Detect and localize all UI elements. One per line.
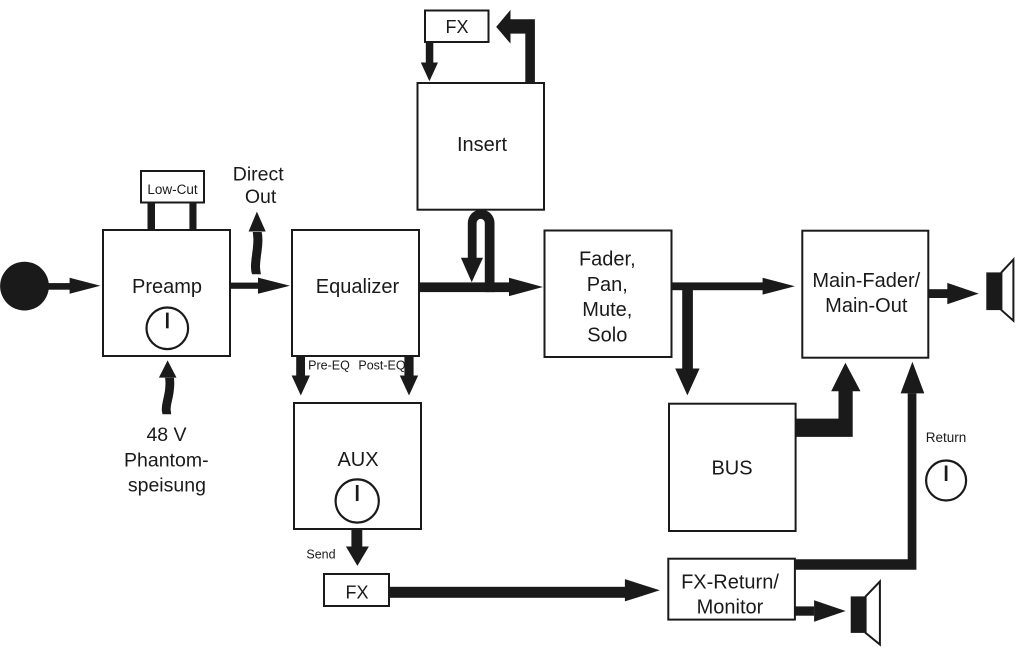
svg-text:Solo: Solo (587, 324, 627, 346)
svg-text:AUX: AUX (337, 449, 378, 471)
Pre-EQ tap arrow (292, 356, 310, 396)
Preamp gain knob (147, 308, 189, 350)
wire Fader to Main-Fader with arrowhead (672, 278, 795, 295)
Send label (306, 548, 335, 562)
svg-text:speisung: speisung (128, 475, 206, 497)
svg-text:Main-Out: Main-Out (825, 295, 908, 317)
Return label (926, 430, 967, 445)
Insert box (418, 83, 545, 210)
svg-text:Low-Cut: Low-Cut (147, 182, 198, 197)
svg-text:Pan,: Pan, (587, 274, 628, 296)
wire Preamp to Equalizer with arrowhead (230, 278, 290, 294)
48 V Phantomspeisung label (124, 424, 209, 497)
wire FX-Return to monitor speaker with arrowhead (795, 600, 846, 622)
svg-text:Fader,: Fader, (579, 249, 636, 271)
Pre-EQ label (308, 359, 350, 373)
main speaker icon (986, 260, 1013, 321)
svg-text:Pre-EQ: Pre-EQ (308, 359, 350, 373)
48V phantom power squiggle arrow (159, 360, 177, 414)
svg-text:FX: FX (445, 17, 468, 37)
AUX send arrow down to FX (346, 529, 369, 566)
wire Equalizer to Fader with arrowhead (419, 278, 543, 296)
Direct Out label (233, 164, 285, 209)
wire FX to FX-Return with arrowhead (389, 579, 660, 601)
svg-text:Mute,: Mute, (582, 299, 632, 321)
Post-EQ tap arrow (400, 356, 418, 396)
wire FX down into Insert with arrowhead (421, 42, 438, 81)
svg-text:Main-Fader/: Main-Fader/ (812, 270, 920, 292)
Direct Out squiggle arrow (249, 212, 266, 275)
svg-text:FX-Return/: FX-Return/ (681, 572, 779, 594)
svg-text:Send: Send (306, 548, 335, 562)
svg-text:Post-EQ: Post-EQ (358, 359, 406, 373)
Low-Cut box (141, 171, 204, 203)
svg-text:Return: Return (926, 430, 967, 445)
tap down from main wire to BUS with arrowhead (675, 286, 699, 395)
svg-text:Preamp: Preamp (132, 276, 202, 298)
Main-Fader/Main-Out box (802, 231, 928, 358)
svg-text:Insert: Insert (457, 134, 507, 156)
Fader/Pan/Mute/Solo box (545, 231, 672, 358)
Post-EQ label (358, 359, 406, 373)
AUX box (294, 403, 421, 529)
AUX level knob (336, 479, 379, 522)
svg-text:48 V: 48 V (146, 424, 186, 446)
BUS box (669, 404, 796, 531)
wire mic to Preamp with arrowhead (47, 278, 100, 294)
Preamp box (103, 230, 230, 356)
FX box (aux effect) (324, 574, 389, 606)
Equalizer box (292, 230, 419, 356)
return wire FX-Return up to Main-Fader with arrowhead (795, 362, 924, 570)
monitor speaker icon (851, 582, 880, 645)
svg-text:Equalizer: Equalizer (316, 276, 400, 298)
wire Main-Out to speaker with arrowhead (929, 283, 979, 304)
mic input source (0, 262, 49, 311)
svg-text:Monitor: Monitor (697, 597, 764, 619)
elbow arrow Insert up to FX (496, 10, 535, 83)
insert send/return hairpin loop (461, 210, 495, 292)
FX-Return/Monitor box (668, 559, 795, 620)
Return level knob (926, 461, 966, 501)
svg-text:Direct: Direct (233, 164, 285, 186)
svg-text:Phantom-: Phantom- (124, 449, 209, 471)
Low-Cut connecting legs (148, 203, 197, 231)
svg-text:Out: Out (245, 186, 277, 208)
svg-text:FX: FX (345, 582, 368, 602)
thick elbow arrow BUS up into Main-Fader (796, 363, 861, 437)
svg-text:BUS: BUS (711, 458, 752, 480)
FX box (insert effect) (425, 11, 489, 43)
